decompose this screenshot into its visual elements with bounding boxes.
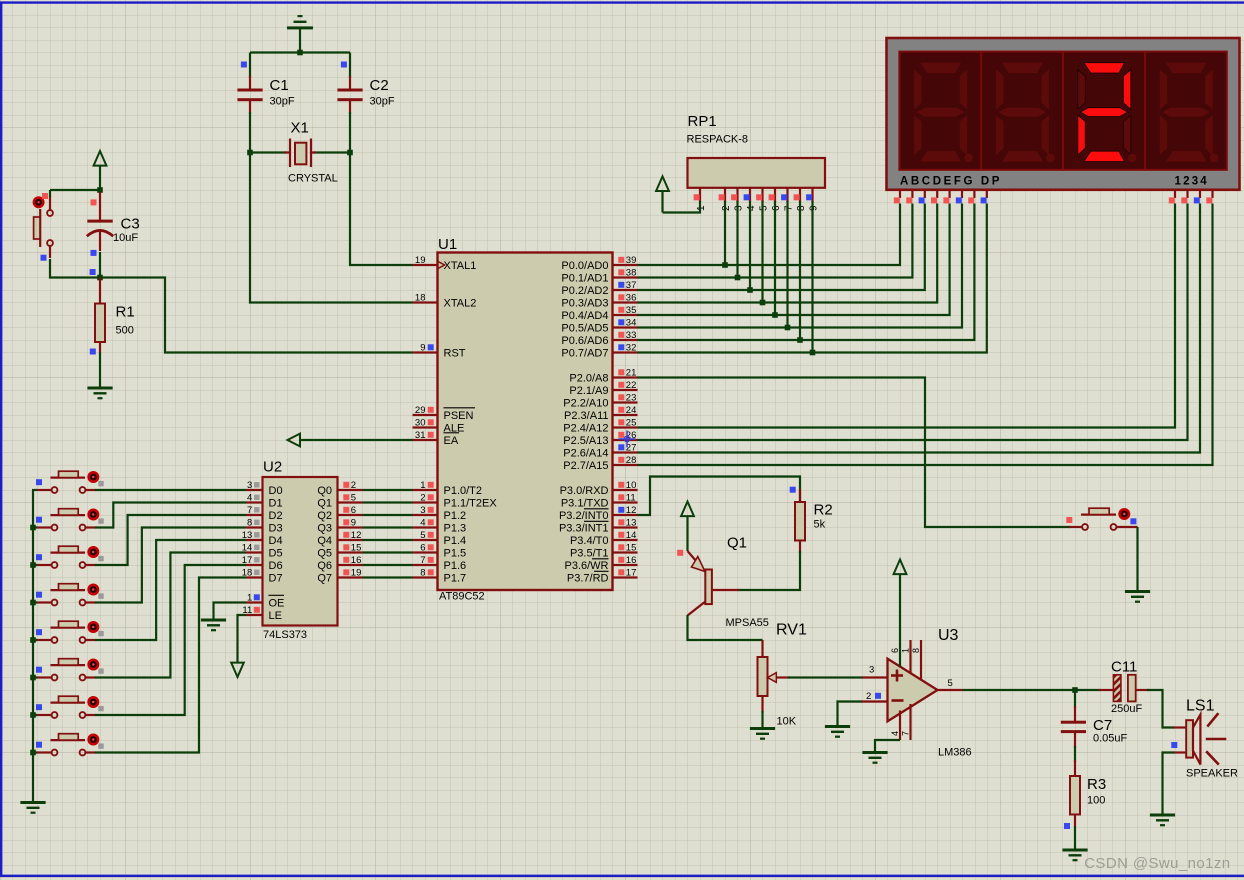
U1 pin 24 stub (613, 414, 638, 416)
U2 pin Q6 stub (338, 564, 363, 566)
pin state 26 (618, 432, 624, 438)
svg-text:3: 3 (733, 205, 744, 211)
pin state R2 top (790, 487, 796, 493)
push button key 0 (51, 471, 86, 493)
push button key 1 (51, 509, 86, 531)
svg-text:5: 5 (351, 493, 356, 504)
svg-text:ABCDEFG DP: ABCDEFG DP (900, 176, 1002, 188)
svg-text:0.05uF: 0.05uF (1093, 733, 1128, 745)
reset button top lead (49, 196, 51, 211)
speaker LS1 (1186, 720, 1193, 757)
pin state 35 (618, 307, 624, 313)
U1 pin 6 stub (413, 551, 438, 553)
svg-text:P1.3: P1.3 (444, 522, 467, 534)
pin state 17 (618, 569, 624, 575)
junction P0.3 / RP1 (760, 300, 766, 306)
U2 pin D2 stub (246, 514, 263, 516)
R3 top lead (1074, 760, 1076, 777)
wire RP1 pin3 drop (736, 201, 738, 278)
junction reset top (97, 187, 103, 193)
capacitor C2 (337, 89, 362, 102)
svg-text:38: 38 (626, 268, 637, 279)
svg-text:1: 1 (696, 205, 707, 211)
svg-text:LM386: LM386 (938, 747, 972, 759)
C2 lower lead (349, 101, 351, 114)
wire LS1 to ground (1163, 753, 1175, 814)
svg-text:P0.4/AD4: P0.4/AD4 (561, 310, 608, 322)
svg-text:XTAL1: XTAL1 (444, 260, 477, 272)
svg-text:P0.2/AD2: P0.2/AD2 (561, 285, 608, 297)
pin state seg 2 (919, 197, 925, 203)
svg-text:Q0: Q0 (317, 485, 332, 497)
RP1 pin 4 stub (749, 188, 751, 202)
U3 plus input mark (891, 670, 904, 701)
wire C7 to R3 (1074, 746, 1076, 762)
display dp 2 (1046, 154, 1055, 163)
U3 pin2 lead (861, 700, 888, 702)
LS1 top lead (1173, 726, 1187, 728)
svg-text:P2.7/A15: P2.7/A15 (563, 460, 608, 472)
U1 pin 36 stub (613, 301, 638, 303)
RV1 wiper lead (776, 676, 790, 678)
wire P0.4 net (638, 204, 950, 316)
U1 pin 35 stub (613, 314, 638, 316)
wire key7 bus link (32, 751, 37, 753)
Q1 emitter arrow (692, 557, 706, 572)
wire D4 net (95, 540, 246, 640)
svg-text:D5: D5 (269, 547, 283, 559)
wire LE terminal wire (238, 615, 247, 662)
svg-text:P1.2: P1.2 (444, 510, 467, 522)
U2 pin LE stub (246, 614, 263, 616)
wire Q1 collector to RV1 (688, 615, 763, 640)
wire RST net (100, 278, 413, 353)
ground RV1 (750, 727, 775, 740)
7-segment display 4-digit module (887, 38, 1240, 190)
svg-text:5: 5 (420, 530, 425, 541)
ground key (1125, 590, 1150, 603)
svg-text:4: 4 (420, 518, 425, 529)
svg-text:15: 15 (351, 543, 362, 554)
RV1 wiper arrow (768, 673, 777, 683)
wire D1 net (95, 503, 246, 528)
junction P0.1 / RP1 (735, 275, 741, 281)
U2 pin OE stub (246, 601, 263, 603)
RP1 pin 2 stub (724, 188, 726, 202)
svg-text:7: 7 (901, 731, 911, 736)
key0 right lead (86, 489, 96, 491)
resistor body R2 (795, 502, 805, 541)
wire OE to ground (214, 603, 247, 619)
wire P0.3 net (638, 204, 938, 303)
svg-text:16: 16 (351, 555, 362, 566)
svg-text:P0.0/AD0: P0.0/AD0 (561, 260, 608, 272)
wire key5 bus link (32, 676, 37, 678)
button actuator key P2.0 (1118, 508, 1130, 520)
U1 pin 14 stub (613, 539, 638, 541)
svg-text:6: 6 (890, 648, 900, 653)
pin state RP1.3 (731, 194, 737, 200)
pin state 23 (618, 394, 624, 400)
svg-text:14: 14 (626, 530, 637, 541)
svg-text:D1: D1 (269, 497, 283, 509)
pin state 15 (618, 544, 624, 550)
U2 pin Q4 stub (338, 539, 363, 541)
svg-text:CRYSTAL: CRYSTAL (288, 173, 338, 185)
U1 pin 12 stub (613, 514, 638, 516)
pin state RP1.7 (781, 194, 787, 200)
pin state 6 (428, 544, 434, 550)
wire C2 top lead (349, 53, 351, 79)
pin state key3 left (36, 592, 42, 598)
RP1 pin 8 stub (799, 188, 801, 202)
pin state RP1.5 (756, 194, 762, 200)
pin state 28 (618, 457, 624, 463)
svg-text:CSDN @Swu_no1zn: CSDN @Swu_no1zn (1084, 855, 1230, 872)
pin state D2 (254, 507, 259, 512)
pin state key1 left (36, 517, 42, 523)
junction bus key5 (30, 675, 36, 681)
wire RV1 to ground (761, 711, 763, 727)
svg-text:12: 12 (626, 505, 637, 516)
svg-text:74LS373: 74LS373 (263, 629, 307, 641)
pin state D0 (254, 482, 259, 487)
svg-text:R3: R3 (1087, 776, 1106, 793)
svg-text:Q2: Q2 (317, 510, 332, 522)
svg-text:R2: R2 (814, 502, 833, 519)
wire key3 bus link (32, 601, 37, 603)
svg-text:250uF: 250uF (1111, 703, 1142, 715)
resistor pack RP1 body (688, 158, 826, 188)
button actuator key 0 (87, 471, 99, 483)
U2 pin Q5 stub (338, 551, 363, 553)
op IC U1 AT89C52 body (438, 253, 613, 591)
wire D6 net (95, 565, 246, 715)
wire P2.7 net (638, 204, 1213, 466)
pin state LS1 (1171, 742, 1177, 748)
pin state 36 (618, 294, 624, 300)
wire P0.2 net (638, 204, 925, 291)
key1 left lead (36, 526, 52, 528)
button actuator key 4 (87, 621, 99, 633)
wire C11 to speaker (1147, 690, 1175, 728)
XTAL1 clock mark (438, 261, 445, 269)
svg-text:9: 9 (808, 205, 819, 211)
U2 pin Q1 stub (338, 501, 363, 503)
pin state 32 (618, 344, 624, 350)
pin state seg 1 (906, 197, 912, 203)
pin state key6 left (36, 704, 42, 710)
pin state Q7 (343, 569, 349, 575)
svg-text:P3.7/RD: P3.7/RD (567, 572, 609, 584)
U1 pin 39 stub (613, 264, 638, 266)
pin state reset top (42, 193, 48, 199)
svg-text:8: 8 (911, 648, 921, 653)
display segment pin 6 (973, 190, 975, 198)
wire RP1 pin4 drop (749, 201, 751, 290)
power terminal VCC Q1 (681, 502, 694, 517)
pin state 39 (618, 257, 624, 263)
U2 pin D3 stub (246, 526, 263, 528)
wire P2.0 net to key (638, 378, 1071, 528)
pin state key0 left (36, 479, 42, 485)
resistor body R1 (95, 304, 105, 343)
wire reset top link (50, 189, 100, 191)
crystal X1 (284, 139, 316, 168)
svg-text:1: 1 (901, 648, 911, 653)
display segment pin 1 (911, 190, 913, 198)
pin state R1 bottom (90, 349, 96, 355)
pin state seg 5 (956, 197, 962, 203)
U1 pin 21 stub (613, 376, 638, 378)
svg-text:6: 6 (771, 205, 782, 211)
display dp 3 (1128, 154, 1137, 163)
key4 left lead (36, 639, 52, 641)
pin state RP1.6 (769, 194, 775, 200)
svg-text:SPEAKER: SPEAKER (1186, 768, 1238, 780)
U1 pin 11 stub (613, 501, 638, 503)
U1 pin 29 stub (413, 414, 438, 416)
U1 pin 22 stub (613, 389, 638, 391)
R1 top lead (99, 278, 101, 305)
RP1 pin 6 stub (774, 188, 776, 202)
svg-text:32: 32 (626, 343, 637, 354)
svg-text:500: 500 (116, 325, 134, 337)
wire reset button top wire (49, 190, 51, 197)
svg-text:EA: EA (444, 435, 459, 447)
display digit pin 1 (1174, 190, 1176, 198)
wire R3 to ground (1074, 826, 1076, 849)
svg-text:1: 1 (247, 593, 252, 604)
key2 right lead (86, 564, 96, 566)
button actuator key 7 (87, 734, 99, 746)
wire Q4 to P1.4 (363, 539, 413, 541)
U1 pin 27 stub (613, 451, 638, 453)
pin state 13 (618, 519, 624, 525)
svg-text:C7: C7 (1093, 717, 1112, 734)
capacitor C3 top lead (99, 192, 101, 220)
key7 right lead (86, 751, 96, 753)
svg-text:8: 8 (247, 518, 252, 529)
U1 pin 23 stub (613, 401, 638, 403)
svg-text:Q7: Q7 (317, 572, 332, 584)
pin state RP1.1 (694, 194, 700, 200)
ground U3 pin2 (825, 725, 850, 738)
resistor body R3 (1070, 776, 1080, 815)
U2 pin D1 stub (246, 501, 263, 503)
svg-text:5k: 5k (814, 519, 826, 531)
pin state 21 (618, 369, 624, 375)
svg-text:1234: 1234 (1175, 176, 1209, 188)
svg-text:30pF: 30pF (270, 96, 295, 108)
display digit 1 (914, 63, 967, 162)
pin state key left (1066, 517, 1072, 523)
svg-text:U3: U3 (938, 627, 959, 644)
op-amp U3 LM386 (888, 659, 938, 722)
U1 pin 28 stub (613, 464, 638, 466)
display segment pin 7 (986, 190, 988, 198)
pin state Q1 emitter (677, 550, 683, 556)
wire D0 net (95, 489, 246, 491)
svg-text:OE: OE (269, 597, 285, 609)
wire RP1 pin8 drop (799, 201, 801, 340)
svg-text:10K: 10K (777, 716, 797, 728)
svg-text:7: 7 (247, 505, 252, 516)
svg-text:RST: RST (444, 347, 466, 359)
svg-text:MPSA55: MPSA55 (726, 617, 769, 629)
svg-text:RP1: RP1 (688, 113, 717, 130)
pin state R1 top (90, 269, 96, 275)
svg-text:16: 16 (626, 555, 637, 566)
svg-text:P1.0/T2: P1.0/T2 (444, 485, 483, 497)
pin state key right (1130, 518, 1136, 524)
svg-text:C2: C2 (370, 77, 389, 94)
svg-text:4: 4 (890, 731, 900, 736)
svg-text:39: 39 (626, 255, 637, 266)
U1 pin 32 stub (613, 351, 638, 353)
svg-text:PSEN: PSEN (444, 410, 474, 422)
wire U3 pin4 to ground (875, 740, 900, 751)
C3 bottom lead (99, 232, 101, 251)
pin state seg 6 (968, 197, 974, 203)
speaker sound waves (1206, 713, 1227, 764)
pin state key3 right (98, 593, 103, 598)
pin state 31 (428, 432, 434, 438)
pin state 14 (618, 532, 624, 538)
RP1 pin 7 stub (786, 188, 788, 202)
pin state 2 (428, 494, 434, 500)
wire P2.5 net (638, 204, 1188, 441)
button actuator key 2 (87, 546, 99, 558)
U2 pin Q0 stub (338, 489, 363, 491)
wire P0.5 net (638, 204, 963, 328)
wire key2 bus link (32, 564, 37, 566)
pin state RP1.8 (794, 194, 800, 200)
svg-text:D6: D6 (269, 560, 283, 572)
junction top (297, 50, 303, 56)
svg-text:9: 9 (420, 343, 425, 354)
svg-text:P0.3/AD3: P0.3/AD3 (561, 297, 608, 309)
key right lead (1117, 526, 1138, 528)
pin state seg 0 (894, 197, 900, 203)
U1 pin 34 stub (613, 326, 638, 328)
svg-text:25: 25 (626, 418, 637, 429)
U1 pin 19 stub (413, 264, 438, 266)
wire Q7 to P1.7 (363, 576, 413, 578)
svg-text:3: 3 (247, 480, 252, 491)
wire C7 top wire (1074, 690, 1076, 708)
display segment pin 0 (899, 190, 901, 198)
wire D3 net (95, 528, 246, 603)
display digit pin 4 (1211, 190, 1213, 198)
terminal arrow LE terminal (231, 663, 244, 677)
svg-text:P3.6/WR: P3.6/WR (564, 560, 608, 572)
capacitor C2 lead (349, 76, 351, 89)
svg-text:1: 1 (420, 480, 425, 491)
svg-text:3: 3 (869, 665, 874, 676)
U1 pin 7 stub (413, 564, 438, 566)
junction bus key2 (30, 562, 36, 568)
pin state RP1.9 (806, 194, 812, 200)
pin state D3 (254, 520, 259, 525)
U1 pin 9 stub (413, 351, 438, 353)
pin state LE (254, 607, 260, 613)
U1 pin 31 stub (413, 439, 438, 441)
svg-text:X1: X1 (291, 120, 309, 137)
mouse cursor crosshair (619, 431, 636, 448)
capacitor C3 (electrolytic) (87, 220, 112, 223)
wire wiper to U3 pin3 (788, 676, 863, 678)
wire P0.7 net (638, 204, 987, 353)
svg-text:3: 3 (420, 505, 425, 516)
pin state seg 4 (943, 197, 949, 203)
wire D2 net (95, 515, 246, 565)
pin state key5 left (36, 667, 42, 673)
button actuator key 6 (87, 696, 99, 708)
svg-text:P2.0/A8: P2.0/A8 (569, 372, 608, 384)
U3 pin8 lead (920, 640, 922, 680)
wire key0 bus link (32, 489, 37, 491)
svg-text:Q4: Q4 (317, 535, 332, 547)
wire C1 top lead (249, 53, 251, 79)
svg-text:D2: D2 (269, 510, 283, 522)
U3 pin7 lead (909, 704, 911, 740)
pin state Q0 (343, 482, 349, 488)
C7 top lead (1074, 706, 1076, 721)
svg-text:29: 29 (415, 405, 426, 416)
svg-text:10uF: 10uF (113, 232, 138, 244)
push button key 4 (51, 621, 86, 643)
pin state key2 left (36, 554, 42, 560)
key2 left lead (36, 564, 52, 566)
pin state seg 3 (931, 197, 937, 203)
power terminal VCC (RP1) (661, 191, 663, 213)
ground LS1 (1150, 814, 1175, 827)
ground OE (201, 619, 226, 632)
U1 pin 1 stub (413, 489, 438, 491)
junction bus key4 (30, 637, 36, 643)
RV1 bottom lead (761, 696, 763, 713)
U1 pin 2 stub (413, 501, 438, 503)
key0 left lead (36, 489, 52, 491)
push button key 7 (51, 734, 86, 756)
power terminal VCC reset (94, 151, 107, 166)
pin state 10 (618, 482, 624, 488)
svg-text:P1.4: P1.4 (444, 535, 467, 547)
junction node RST (97, 275, 103, 281)
junction P0.6 / RP1 (797, 337, 803, 343)
pin state reset bottom (41, 255, 47, 261)
wire crystal left link (250, 151, 287, 153)
U1 pin 25 stub (613, 426, 638, 428)
key6 left lead (36, 714, 52, 716)
pin state 3 (428, 507, 434, 513)
RP1 pin 9 stub (811, 188, 813, 202)
svg-text:P1.1/T2EX: P1.1/T2EX (444, 497, 498, 509)
svg-text:18: 18 (415, 293, 426, 304)
pin state 5 (428, 532, 434, 538)
svg-text:2: 2 (351, 480, 356, 491)
U1 pin 3 stub (413, 514, 438, 516)
junction P0.0 / RP1 (722, 262, 728, 268)
svg-text:30: 30 (415, 418, 426, 429)
pin state dig 1 (1169, 197, 1175, 203)
svg-text:P0.7/AD7: P0.7/AD7 (561, 347, 608, 359)
svg-text:23: 23 (626, 393, 637, 404)
push button reset (vertical) (34, 209, 53, 247)
junction P0.2 / RP1 (747, 287, 753, 293)
wire key4 bus link (32, 639, 37, 641)
